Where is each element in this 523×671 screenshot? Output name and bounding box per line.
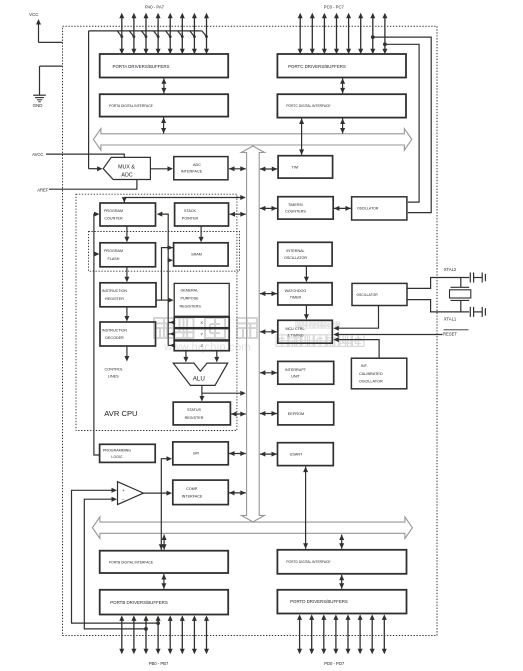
pin PB2 bbox=[144, 615, 149, 654]
svg-text:PROGRAM: PROGRAM bbox=[104, 209, 123, 213]
wire STACK POINTER <-> bus bbox=[230, 213, 246, 215]
pin PA3 bbox=[156, 13, 161, 55]
capacitor C2 (XTAL1) bbox=[470, 307, 485, 317]
wire PROGRAM FLASH to INSTRUCTION REGISTER bbox=[124, 268, 129, 283]
svg-text:PURPOSE: PURPOSE bbox=[181, 296, 200, 300]
watermark bbox=[154, 318, 364, 354]
svg-text:COUNTERS: COUNTERS bbox=[285, 209, 306, 213]
pin PA2 bbox=[144, 13, 149, 55]
wire PORTC digital interface <-> TWI bbox=[301, 119, 303, 155]
svg-text:PROGRAM: PROGRAM bbox=[104, 249, 123, 253]
svg-text:OSCILLATOR: OSCILLATOR bbox=[284, 256, 307, 260]
pin PB3 bbox=[156, 615, 161, 654]
pin PC6 bbox=[370, 13, 375, 55]
wire ALU to STATUS REGISTER and bus bbox=[199, 385, 245, 401]
wire calibrated oscillator to MCU CTRL bbox=[333, 337, 379, 358]
svg-text:INSTRUCTION: INSTRUCTION bbox=[102, 328, 128, 332]
svg-text:Y: Y bbox=[200, 332, 203, 337]
wire SRAM to register load path bbox=[162, 248, 174, 301]
wire PORTA digital interface <-> bus bbox=[163, 118, 165, 134]
wire PORTC drivers <-> digital interface bbox=[342, 78, 344, 93]
wire COMP. INTERFACE <-> bus bbox=[229, 492, 246, 494]
wire registers to ALU left input bbox=[183, 351, 188, 362]
wire STACK POINTER to SRAM bbox=[199, 227, 204, 243]
wire AREF to ADC mux bbox=[49, 180, 137, 190]
pin PD7 bbox=[382, 614, 387, 654]
wire MUX&ADC to ADC INTERFACE bbox=[150, 166, 173, 171]
svg-text:www.hqchip.com: www.hqchip.com bbox=[163, 342, 251, 354]
wire INSTRUCTION DECODER to control lines bbox=[124, 347, 129, 362]
pin PD0 bbox=[297, 614, 302, 654]
svg-text:CONTROL: CONTROL bbox=[105, 368, 124, 372]
memory dashed box bbox=[89, 232, 240, 272]
pin PB0 bbox=[119, 615, 124, 654]
pin PB1 bbox=[131, 615, 136, 654]
svg-text:−: − bbox=[122, 497, 125, 502]
wire PORTB digital <-> drivers bbox=[163, 574, 165, 589]
wire USART to PORTD digital interface bbox=[305, 467, 307, 549]
wire WATCHDOG TIMER <-> bus bbox=[260, 293, 277, 295]
svg-text:INTERFACE: INTERFACE bbox=[181, 170, 203, 174]
wire USART <-> bus bbox=[260, 453, 277, 455]
svg-text:REGISTERS: REGISTERS bbox=[180, 304, 202, 308]
svg-text:GENERAL: GENERAL bbox=[181, 288, 199, 292]
svg-text:MUX &: MUX & bbox=[118, 165, 135, 171]
wire AVCC to ADC mux bbox=[46, 154, 124, 157]
pin PA6 bbox=[192, 13, 197, 55]
svg-text:CALIBRATED: CALIBRATED bbox=[359, 372, 383, 376]
wire XTAL1 from oscillator bbox=[407, 300, 469, 312]
wire TWI <-> bus bbox=[260, 168, 277, 170]
svg-text:INTERFACE: INTERFACE bbox=[182, 494, 203, 498]
svg-text:TWI: TWI bbox=[292, 165, 299, 169]
svg-text:PORTC DIGITAL INTERFACE: PORTC DIGITAL INTERFACE bbox=[286, 104, 331, 108]
svg-text:XTAL1: XTAL1 bbox=[444, 316, 457, 321]
wire PORTD digital <-> drivers bbox=[341, 575, 343, 589]
wire TIMERS/COUNTERS <-> timer oscillator bbox=[334, 207, 351, 209]
pin PA1 bbox=[131, 13, 136, 55]
wire comparator + input from PB2 pin bbox=[72, 488, 161, 625]
svg-text:PORTB DRIVERS/BUFFERS: PORTB DRIVERS/BUFFERS bbox=[110, 600, 168, 605]
wire TOSC1 from pin PC7 to timer oscillator bbox=[383, 42, 419, 202]
svg-text:OSCILLATOR: OSCILLATOR bbox=[357, 293, 379, 297]
pin PC7 bbox=[382, 13, 387, 55]
alu ALU bbox=[173, 363, 228, 385]
pin PC3 bbox=[334, 13, 339, 55]
svg-text:SRAM: SRAM bbox=[191, 253, 202, 257]
svg-text:AREF: AREF bbox=[37, 188, 49, 193]
ground GND bbox=[33, 66, 63, 108]
svg-text:ALU: ALU bbox=[193, 375, 205, 382]
crystal resonator bbox=[450, 278, 471, 312]
wire XTAL2 from oscillator bbox=[407, 278, 469, 289]
AVR CPU dashed box bbox=[76, 194, 237, 430]
wire bus to PROGRAM COUNTER bbox=[122, 195, 246, 203]
svg-text:AVCC: AVCC bbox=[32, 152, 43, 157]
wire INTERNAL OSCILLATOR to WATCHDOG TIMER bbox=[304, 267, 309, 283]
svg-text:UNIT: UNIT bbox=[291, 374, 300, 378]
svg-text:PORTB DIGITAL INTERFACE: PORTB DIGITAL INTERFACE bbox=[109, 560, 154, 564]
svg-text:PB0 - PB7: PB0 - PB7 bbox=[149, 661, 169, 666]
svg-text:PORTC DRIVERS/BUFFERS: PORTC DRIVERS/BUFFERS bbox=[288, 64, 346, 69]
pin PD1 bbox=[309, 614, 314, 654]
capacitor C1 (XTAL2) bbox=[470, 273, 485, 283]
wire main oscillator to MCU CTRL bbox=[333, 306, 378, 331]
wire EEPROM <-> bus bbox=[260, 413, 277, 415]
pin PC1 bbox=[310, 13, 315, 55]
svg-text:USART: USART bbox=[290, 453, 303, 457]
svg-text:STATUS: STATUS bbox=[187, 408, 202, 412]
svg-text:TIMERS/: TIMERS/ bbox=[288, 203, 304, 207]
wire INTERRUPT UNIT <-> bus bbox=[260, 372, 277, 374]
wire registers to ALU right input bbox=[214, 351, 219, 362]
wire TIMERS/COUNTERS <-> bus bbox=[260, 207, 277, 209]
pin PD2 bbox=[321, 614, 326, 654]
svg-text:PORTA DRIVERS/BUFFERS: PORTA DRIVERS/BUFFERS bbox=[113, 64, 170, 69]
svg-text:TIMER: TIMER bbox=[290, 295, 302, 299]
wire comparator - input from PB3 pin bbox=[84, 497, 148, 631]
wire INSTRUCTION REGISTER to GENERAL PURPOSE REGISTERS bbox=[156, 298, 173, 303]
svg-text:AVR CPU: AVR CPU bbox=[104, 409, 137, 418]
wire indirect addressing X/Y/Z to SRAM and PROGRAM COUNTER bbox=[157, 212, 175, 348]
svg-text:X: X bbox=[200, 320, 203, 325]
pin PA4 bbox=[168, 13, 173, 55]
svg-text:WATCHDOG: WATCHDOG bbox=[285, 289, 307, 293]
pin PC0 bbox=[298, 13, 303, 55]
pin PB5 bbox=[180, 615, 185, 654]
svg-text:+: + bbox=[122, 488, 125, 493]
svg-text:RESET: RESET bbox=[443, 332, 457, 337]
vertical data bus bbox=[241, 146, 264, 522]
wire PROGRAM COUNTER to PROGRAM FLASH bbox=[124, 227, 129, 243]
wire PORTA drivers <-> digital interface bbox=[163, 78, 165, 93]
svg-text:INTERRUPT: INTERRUPT bbox=[285, 368, 307, 372]
svg-text:POINTER: POINTER bbox=[182, 217, 199, 221]
svg-text:STACK: STACK bbox=[184, 209, 197, 213]
svg-text:GND: GND bbox=[33, 103, 43, 108]
pin PC2 bbox=[322, 13, 327, 55]
svg-text:VCC: VCC bbox=[29, 12, 38, 17]
svg-text:PA0 - PA7: PA0 - PA7 bbox=[145, 4, 165, 9]
svg-text:ADC: ADC bbox=[193, 163, 201, 167]
pin PB4 bbox=[168, 615, 173, 654]
wire SPI <-> bus bbox=[229, 453, 246, 455]
power VCC bbox=[29, 12, 62, 42]
svg-text:INT.: INT. bbox=[361, 364, 368, 368]
wire WATCHDOG TIMER to MCU CTRL bbox=[304, 306, 309, 320]
wire PORTC digital interface <-> bus bbox=[342, 119, 344, 134]
svg-text:FLASH: FLASH bbox=[108, 257, 120, 261]
svg-text:DECODER: DECODER bbox=[105, 336, 124, 340]
svg-text:COUNTER: COUNTER bbox=[104, 217, 123, 221]
svg-text:INTERNAL: INTERNAL bbox=[286, 249, 304, 253]
pin PA0 bbox=[119, 13, 124, 55]
svg-text:PC0 - PC7: PC0 - PC7 bbox=[324, 4, 345, 9]
pin PD6 bbox=[370, 614, 375, 654]
label RESET (active low) bbox=[443, 330, 468, 337]
svg-text:SPI: SPI bbox=[193, 452, 199, 456]
svg-text:XTAL2: XTAL2 bbox=[444, 267, 457, 272]
svg-text:ADC: ADC bbox=[121, 173, 132, 179]
pin PD4 bbox=[346, 614, 351, 654]
wire bus to PORTD digital interface bbox=[341, 535, 343, 549]
pin PB6 bbox=[192, 615, 197, 654]
chip boundary (dashed) bbox=[63, 26, 438, 635]
wire INSTRUCTION REGISTER to INSTRUCTION DECODER bbox=[124, 308, 129, 322]
pin PB7 bbox=[204, 615, 209, 654]
comparator analog comparator bbox=[118, 482, 144, 505]
svg-text:OSCILLATOR: OSCILLATOR bbox=[359, 379, 383, 383]
analog input rail from PA pins to ADC mux bbox=[89, 31, 208, 171]
svg-text:PORTA DIGITAL INTERFACE: PORTA DIGITAL INTERFACE bbox=[109, 104, 153, 108]
svg-text:REGISTER: REGISTER bbox=[105, 297, 124, 301]
pin PD5 bbox=[358, 614, 363, 654]
wire STATUS REGISTER <-> bus bbox=[231, 413, 246, 415]
svg-text:COMP.: COMP. bbox=[186, 487, 198, 491]
wire programming logic to program counter and flash bbox=[94, 212, 100, 455]
svg-text:OSCILLATOR: OSCILLATOR bbox=[357, 207, 379, 211]
svg-text:PORTD DRIVERS/BUFFERS: PORTD DRIVERS/BUFFERS bbox=[290, 599, 348, 604]
wire bus to PORTB digital interface bbox=[163, 535, 165, 550]
svg-text:REGISTER: REGISTER bbox=[185, 416, 204, 420]
mux MUX & ADC bbox=[103, 157, 150, 179]
svg-text:INSTRUCTION: INSTRUCTION bbox=[102, 289, 128, 293]
pin PA7 bbox=[204, 13, 209, 55]
wire comparator output to COMP. INTERFACE bbox=[143, 491, 172, 496]
pin PC5 bbox=[358, 13, 363, 55]
pin PD3 bbox=[333, 614, 338, 654]
wire ADC INTERFACE <-> bus bbox=[229, 168, 246, 170]
svg-text:LOGIC: LOGIC bbox=[111, 455, 123, 459]
horizontal data bus (bottom) bbox=[92, 517, 412, 539]
wire TOSC2 from pin PC6 to timer oscillator bbox=[371, 35, 431, 212]
pin PC4 bbox=[346, 13, 351, 55]
svg-text:PROGRAMMING: PROGRAMMING bbox=[103, 448, 131, 452]
wire RESET to MCU CTRL bbox=[333, 332, 442, 337]
svg-text:PD0 - PD7: PD0 - PD7 bbox=[324, 661, 345, 666]
pin PA5 bbox=[180, 13, 185, 55]
svg-text:EEPROM: EEPROM bbox=[288, 412, 304, 416]
svg-text:PORTD DIGITAL INTERFACE: PORTD DIGITAL INTERFACE bbox=[286, 560, 331, 564]
svg-text:LINES: LINES bbox=[108, 375, 119, 379]
horizontal data bus (top) bbox=[93, 129, 411, 151]
wire SPI to PORTB digital interface bbox=[159, 456, 172, 550]
wire MCU CTRL <-> bus bbox=[260, 331, 277, 333]
